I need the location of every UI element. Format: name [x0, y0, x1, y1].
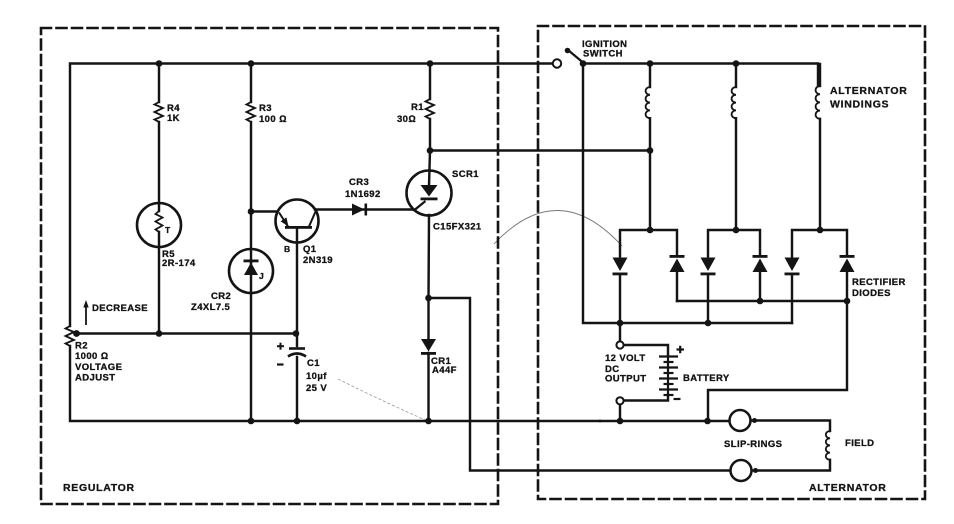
svg-text:CR3: CR3 [349, 177, 369, 188]
svg-text:A44F: A44F [432, 365, 457, 376]
regulator dashed border box [41, 28, 498, 504]
rectifier diode D3 down [701, 258, 716, 276]
svg-text:R1: R1 [411, 102, 424, 113]
svg-text:1000 Ω: 1000 Ω [75, 351, 108, 362]
svg-text:REGULATOR: REGULATOR [63, 482, 135, 494]
decrease arrow [83, 300, 88, 325]
capacitor C1 minus sign [277, 363, 284, 365]
svg-text:R3: R3 [259, 103, 272, 114]
svg-text:SLIP-RINGS: SLIP-RINGS [724, 439, 782, 450]
wire negative bus [620, 322, 792, 324]
R2 wiper arrowhead [73, 330, 80, 337]
svg-text:VOLTAGE: VOLTAGE [75, 362, 122, 373]
svg-text:12 VOLT: 12 VOLT [605, 353, 646, 364]
zener CR2 circle [229, 249, 273, 293]
wire SCR1 cathode down to CR1 [427, 215, 430, 339]
wire R3 column [250, 64, 252, 103]
svg-text:C15FX321: C15FX321 [433, 222, 482, 233]
wire ignition switch column down to rectifier bus [583, 64, 620, 324]
rectifier diode D5 down [785, 258, 800, 276]
resistor R4 element zigzag [155, 102, 164, 122]
wire R1 to SCR1 [429, 119, 430, 186]
alternator dashed border box [538, 26, 925, 499]
diode CR1 [421, 339, 436, 355]
wire battery minus lead [624, 395, 669, 401]
capacitor C1 plus sign [277, 343, 284, 350]
diode CR3 [352, 204, 367, 216]
svg-text:RECTIFIER: RECTIFIER [852, 277, 906, 288]
ignition switch blade [568, 50, 583, 63]
resistor R1 element zigzag [426, 99, 435, 119]
svg-text:FIELD: FIELD [845, 438, 874, 449]
svg-text:T: T [165, 225, 171, 235]
svg-text:SCR1: SCR1 [452, 169, 479, 180]
resistor R2 element zigzag [66, 326, 75, 346]
winding 3 column lower [819, 119, 821, 230]
ignition switch terminal circle [553, 59, 561, 67]
wire R1 column top [429, 64, 431, 100]
labels alternator [582, 39, 908, 494]
wire R4 to thermistor R5 [158, 122, 160, 211]
svg-text:Q1: Q1 [303, 244, 317, 255]
wire SCR cathode branch to field return [429, 298, 730, 471]
svg-text:BATTERY: BATTERY [683, 373, 730, 384]
wire R4 column [158, 64, 160, 103]
winding 2 column lower [735, 118, 737, 230]
svg-text:25 V: 25 V [306, 383, 327, 394]
wire Q1 collector to CR3 to SCR1 gate [315, 208, 413, 210]
capacitor C1 [288, 349, 306, 357]
rectifier pair 3 legs lower [791, 275, 793, 323]
wire C1 bottom to rail [296, 357, 298, 421]
SCR1 symbol [412, 185, 438, 212]
svg-text:1K: 1K [167, 113, 180, 124]
svg-text:ALTERNATOR: ALTERNATOR [830, 85, 908, 97]
svg-text:30Ω: 30Ω [397, 114, 416, 125]
battery plus sign [677, 346, 685, 353]
winding 1 column [649, 64, 651, 88]
wire battery plus lead [624, 345, 669, 356]
svg-text:J: J [259, 271, 264, 281]
rectifier diode D1 down [613, 258, 628, 276]
slip-ring 1 [730, 410, 751, 431]
zener CR2 symbol [244, 260, 259, 276]
wire CR2 bottom through wiper line to bottom rail [250, 262, 252, 421]
transistor Q1 internals [279, 211, 316, 229]
svg-text:DIODES: DIODES [852, 288, 891, 299]
wire regulator to alternator winding 1 [430, 149, 650, 151]
svg-text:SWITCH: SWITCH [583, 49, 623, 60]
slip-ring 2 [731, 460, 752, 481]
inductor winding 1 coil [646, 87, 650, 118]
winding 3 column [819, 64, 821, 86]
field coil bottom wire [752, 460, 831, 471]
transistor Q1 circle [276, 200, 319, 243]
wire battery minus to rail [619, 405, 621, 422]
wire R3 to CR2 [250, 122, 252, 262]
rectifier diode D6 up [840, 255, 855, 272]
svg-text:C1: C1 [307, 358, 320, 369]
inductor winding 2 coil [732, 87, 736, 118]
battery minus sign [674, 398, 681, 400]
svg-text:ALTERNATOR: ALTERNATOR [809, 482, 887, 494]
thermistor R5 internal zigzag [156, 211, 163, 232]
winding 2 column [735, 64, 737, 88]
wire CR1 to bottom rail [427, 353, 429, 421]
svg-text:B: B [284, 244, 290, 254]
rectifier pair 3 top bar and legs [792, 230, 847, 257]
potentiometer R2 wiper wire [77, 332, 296, 334]
rectifier diode D4 up [753, 255, 768, 272]
wire top rail regulator [70, 64, 553, 327]
labels regulator [63, 102, 482, 494]
positive bus of rectifier [677, 300, 847, 302]
wire left column below R2 to bottom rail [70, 346, 600, 421]
wire bottom rail right part to slip-ring 1 [600, 420, 730, 422]
inductor winding 3 coil [816, 86, 820, 119]
svg-text:10µf: 10µf [306, 371, 327, 382]
rectifier pair 1 legs lower [619, 275, 621, 341]
svg-text:WINDINGS: WINDINGS [830, 99, 889, 111]
winding 1 column lower [649, 118, 651, 230]
rectifier diode D2 up [670, 255, 685, 272]
rectifier pair 2 top bar and legs [708, 230, 760, 257]
battery output terminal plus [616, 341, 623, 348]
svg-text:DECREASE: DECREASE [92, 303, 148, 314]
SCR1 circle [407, 171, 452, 216]
wire slip-ring1 to field top [751, 421, 831, 432]
svg-text:100 Ω: 100 Ω [259, 114, 287, 125]
svg-text:2N319: 2N319 [303, 255, 333, 266]
svg-text:1N1692: 1N1692 [345, 189, 381, 200]
svg-text:CR2: CR2 [211, 291, 231, 302]
battery plates [659, 356, 678, 396]
field coil [826, 431, 830, 460]
wire rectifier to field [708, 301, 847, 421]
svg-text:2R-174: 2R-174 [162, 258, 196, 269]
svg-text:R2: R2 [75, 341, 88, 352]
thermistor R5 circle [137, 203, 181, 247]
resistor R3 element zigzag [247, 102, 256, 122]
wire ignition switch to top rail alternator [583, 64, 818, 87]
rectifier pair 2 legs lower [707, 275, 709, 323]
wire Q1 base column down to C1 [296, 229, 298, 346]
svg-text:ADJUST: ADJUST [75, 373, 115, 384]
wire R5 bottom to wiper line [158, 232, 160, 334]
svg-text:Z4XL7.5: Z4XL7.5 [191, 302, 231, 313]
wire node R3 to Q1 emitter [251, 210, 277, 212]
rectifier pair 1 top bar and legs [620, 230, 677, 257]
svg-text:OUTPUT: OUTPUT [605, 374, 646, 385]
battery output terminal minus [616, 397, 623, 404]
